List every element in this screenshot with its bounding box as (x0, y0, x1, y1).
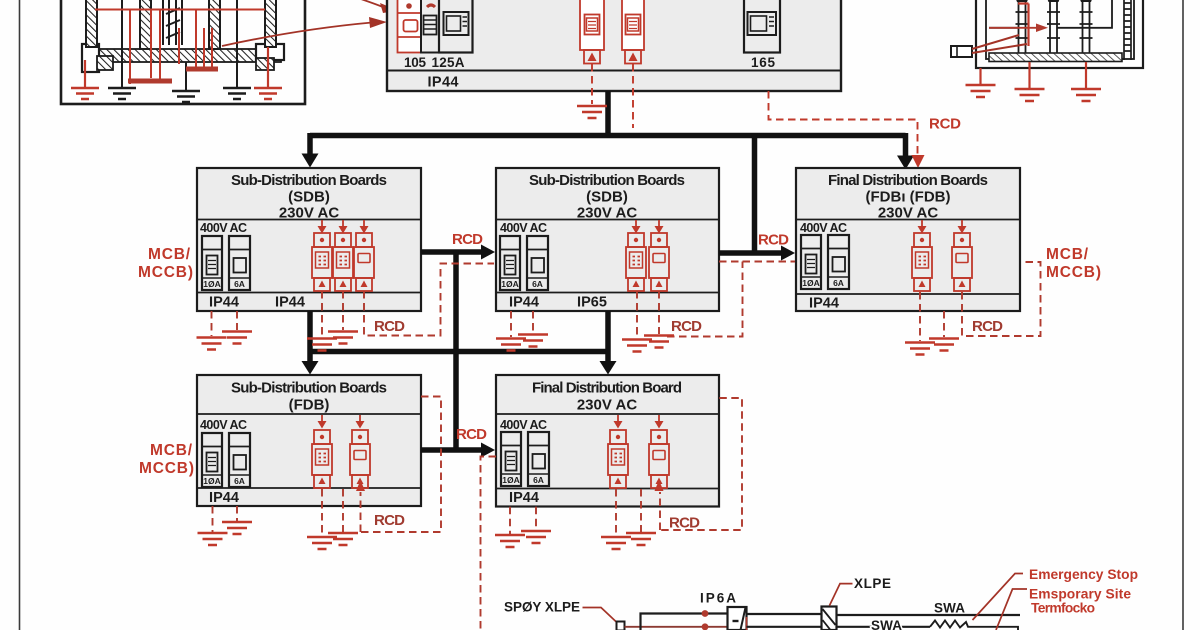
earth dashed FDB2 mcb1 (509, 507, 511, 534)
ground G1 (black) (108, 88, 136, 99)
svg-text:400V AC: 400V AC (800, 221, 847, 235)
svg-text:IP44: IP44 (428, 75, 459, 91)
arrow up into FDB2 rcbo2 (655, 480, 664, 491)
outgoing RCBO R4 (626, 233, 646, 291)
outgoing RCBO R2 (333, 233, 353, 291)
svg-text:RCD: RCD (456, 426, 487, 443)
board FDB1 (row1) (796, 168, 1020, 311)
cable gland box (left of T2) (951, 46, 972, 57)
svg-text:IP44: IP44 (509, 490, 539, 506)
earth dashed SDB3 mcb1 (212, 506, 214, 532)
leader arrow from T1 to main board (upper) (352, 0, 383, 7)
RCD dashed drop with ground (under MDB) (591, 64, 593, 104)
wire drop black 3 (236, 0, 238, 88)
svg-text:RCD: RCD (374, 318, 405, 335)
board FDB2 (row2) (496, 375, 719, 507)
wire: SDB1 drop through bus into SDB3 (307, 311, 313, 365)
MDB strip divider (387, 70, 841, 72)
svg-text:230V AC: 230V AC (279, 205, 339, 222)
earth dashed FDB2 rcbo1 (615, 489, 617, 536)
arrow up into SDB3 rcbo2 (356, 480, 365, 491)
earth dashed FDB2 mcb2 (535, 507, 537, 530)
earth drop T2 left (979, 68, 981, 84)
svg-text:Final Distribution Board: Final Distribution Board (532, 380, 682, 397)
ground G2 (black) (172, 91, 200, 102)
meter device D3 (439, 0, 473, 53)
insulator stack column (1124, 0, 1131, 60)
leader arrow from T1 to main board (lower) (222, 23, 372, 47)
svg-text:IP44: IP44 (275, 295, 305, 311)
svg-text:MCB/: MCB/ (1046, 246, 1089, 263)
leader: temporary site (996, 589, 1027, 630)
busbar (hatched) (989, 53, 1122, 62)
svg-text:SPØY XLPE: SPØY XLPE (504, 600, 580, 615)
wire: row2 bus (thick) (310, 349, 609, 355)
ground G8 (red) (1015, 89, 1045, 101)
MCB pair (SDB1) (202, 236, 250, 290)
svg-text:Sub-Distribution Boards: Sub-Distribution Boards (529, 172, 685, 189)
RCD dashed feeder to FDB (top) (769, 91, 918, 156)
post stack 1 (1016, 0, 1029, 53)
RCD loop SDB3 (361, 397, 442, 533)
column P4 (hatched) (265, 0, 276, 47)
MCB pair (FDB1) (801, 235, 849, 289)
svg-text:SWA: SWA (871, 618, 902, 630)
red collector bar B (186, 67, 218, 72)
earth dashed SDB2 mcb2 (532, 311, 534, 333)
isolator switch box (728, 607, 747, 630)
outgoing RCBO R1 (312, 233, 332, 291)
svg-text:RCD: RCD (374, 512, 405, 529)
svg-text:RCD: RCD (929, 116, 961, 133)
svg-text:RCD: RCD (972, 318, 1003, 335)
wire drop black 2 (185, 62, 187, 91)
incomer device D1 (red) (398, 0, 422, 53)
wire: bus drop junction to RCD link (752, 133, 758, 253)
outgoing RCBO R5 (649, 233, 669, 291)
earth dashed FDB1 mcb2 (943, 311, 945, 337)
gland (hatched box) (822, 607, 837, 630)
column P1 (hatched) (86, 0, 97, 47)
svg-text:230V AC: 230V AC (577, 205, 637, 222)
earth dashed SDB3 rcbo2 (342, 489, 344, 532)
ground G6 (red) (577, 106, 607, 118)
red wire drop left (84, 60, 86, 88)
meter device D2 (421, 0, 439, 53)
wire: bus drop to FDB boards (903, 133, 909, 159)
wire: lower core with armour joint (837, 626, 931, 628)
svg-text:400V AC: 400V AC (500, 418, 547, 432)
armour zigzag (930, 621, 1018, 630)
svg-text:(FDBı (FDB): (FDBı (FDB) (866, 189, 951, 206)
leader to plug (583, 608, 619, 624)
svg-text:IP65: IP65 (577, 295, 607, 311)
svg-text:RCD: RCD (671, 318, 702, 335)
ground G5 (red) (254, 88, 282, 99)
svg-text:SWA: SWA (934, 601, 965, 616)
wire: main bus (horizontal) (310, 133, 906, 139)
MCB pair (SDB3) (202, 433, 250, 487)
svg-text:MCB/: MCB/ (150, 442, 193, 459)
red riser wire (1018, 4, 1029, 47)
beam (hatched horizontal member) (95, 49, 281, 62)
wire: lower core (red-brown) (625, 626, 728, 628)
svg-text:(FDB): (FDB) (289, 397, 330, 414)
wire: upper core corner (641, 614, 728, 630)
svg-text:XLPE: XLPE (854, 576, 891, 591)
wire drop black 1 (121, 0, 123, 88)
outgoing RCBO R3 (354, 233, 374, 291)
wire: lower core after switch (747, 626, 822, 628)
wire: link SDB2 to FDB1 (thick) (719, 250, 784, 256)
earth dashed SDB2 rcbo2 (658, 291, 660, 334)
transformer sketch T1 (top-left enclosure) (61, 0, 305, 104)
outgoing breaker B2 (red) (622, 0, 644, 64)
svg-text:RCD: RCD (758, 232, 789, 249)
outgoing RCBO R8 (312, 430, 332, 488)
svg-text:IP44: IP44 (209, 295, 239, 311)
outgoing RCBO R6 (912, 233, 932, 291)
svg-text:MCCB): MCCB) (139, 460, 194, 477)
earth dashed SDB3 rcbo1 (321, 489, 323, 536)
RCD loop SDB1 to SDB2 (364, 264, 494, 336)
grounds row1 (red) (197, 338, 227, 350)
outgoing RCBO R11 (649, 430, 669, 488)
svg-text:125A: 125A (432, 55, 465, 70)
earth dashed SDB1 mcb2 (236, 311, 238, 330)
ground G7 (red) (966, 85, 996, 97)
ground G3 (black) (223, 88, 251, 99)
svg-text:IP44: IP44 (209, 490, 239, 506)
svg-text:230V AC: 230V AC (577, 397, 637, 414)
svg-text:RCD: RCD (452, 231, 483, 248)
svg-text:Emsporary Site: Emsporary Site (1029, 587, 1131, 602)
svg-text:(SDB): (SDB) (288, 189, 330, 206)
ground G9 (red) (1071, 89, 1101, 101)
svg-text:Sub-Distribution Boards: Sub-Distribution Boards (231, 172, 387, 189)
svg-text:400V AC: 400V AC (500, 221, 547, 235)
svg-text:MCCB): MCCB) (1046, 264, 1101, 281)
wire: upper core after switch (747, 613, 822, 615)
wire: bus drop to SDB1 (307, 133, 313, 157)
feed arrows into RCBOs (318, 220, 327, 234)
svg-text:400V AC: 400V AC (200, 221, 247, 235)
red collector bar A (128, 79, 172, 84)
outgoing RCBO R7 (952, 233, 972, 291)
junction dot upper (702, 610, 709, 617)
post caps (1014, 0, 1030, 2)
earth dashed SDB2 mcb1 (510, 311, 512, 337)
switchgear sketch T2 (top-right enclosure) (976, 0, 1143, 68)
RCD dashed stub under MDB (632, 64, 634, 128)
earth dashed SDB1 rcbo2 (342, 291, 344, 330)
RCD dashed feed to bottom cable (481, 457, 497, 630)
svg-text:165: 165 (751, 55, 775, 70)
border frame left (19, 0, 21, 630)
MCB pair (SDB2) (500, 236, 548, 290)
post stack 2 (1047, 0, 1060, 53)
wire: link SDB3 to FDB2 (thick) (421, 447, 484, 453)
border frame right (1182, 0, 1184, 630)
earth dashed FDB1 mcb1 (919, 292, 921, 341)
meter device D4 (744, 0, 780, 53)
red wire drop right (267, 47, 269, 88)
earth dashed SDB2 rcbo1 (636, 291, 638, 338)
grounds row2 (red) (198, 533, 228, 545)
svg-text:IP44: IP44 (809, 296, 839, 312)
earth dashed SDB1 mcb1 (211, 311, 213, 336)
wire: MDB feeder drop to bus (605, 91, 611, 136)
svg-text:400V AC: 400V AC (200, 418, 247, 432)
junction dot lower (702, 623, 709, 630)
column P3 (hatched) (209, 0, 220, 49)
earth dashed SDB3 mcb2 (236, 506, 238, 521)
earth drop T2 right (1085, 62, 1087, 88)
interconnect wire (black) (989, 0, 1112, 28)
svg-text:MCB/: MCB/ (148, 246, 191, 263)
main distribution board MDB (387, 0, 841, 91)
red feeder bus inside T1 (95, 10, 265, 85)
board SDB1 (row1) (197, 168, 421, 311)
svg-text:Sub-Distribution Boards: Sub-Distribution Boards (231, 380, 387, 397)
svg-text:(SDB): (SDB) (586, 189, 628, 206)
outgoing breaker B1 (red) (580, 0, 604, 64)
red cable pair into T2 (972, 35, 1027, 53)
post stack 3 (1080, 0, 1093, 53)
wire: SDB2 drop through bus into FDB2 (605, 311, 611, 365)
MCB pair (FDB2) (501, 432, 549, 486)
svg-text:105: 105 (404, 55, 426, 70)
ground G4 (red) (71, 88, 99, 99)
leader: emergency stop (973, 574, 1024, 621)
board SDB3 (row2) (197, 375, 421, 506)
svg-text:RCD: RCD (669, 515, 700, 532)
svg-text:Termfocko: Termfocko (1031, 601, 1095, 616)
earth dashed FDB2 rcbo2 (640, 489, 642, 532)
svg-text:230V AC: 230V AC (878, 205, 938, 222)
svg-text:Emergency Stop: Emergency Stop (1029, 567, 1138, 582)
svg-text:IP44: IP44 (509, 295, 539, 311)
outgoing RCBO R9 (350, 430, 370, 488)
earth drop T2 mid (1028, 62, 1030, 88)
RCD loop SDB2 to FDB1 (667, 262, 795, 337)
outgoing RCBO R10 (608, 430, 628, 488)
plug connector (617, 622, 625, 630)
svg-text:MCCB): MCCB) (138, 264, 193, 281)
svg-text:IP6A: IP6A (700, 591, 736, 606)
RCD loop FDB1 (962, 262, 1041, 336)
wire: upper core to end (837, 614, 1021, 616)
column P2 (hatched) (140, 0, 151, 49)
wire: link SDB1 to SDB2 (thick) (421, 249, 484, 255)
earth dashed SDB1 rcbo1 (321, 291, 323, 337)
svg-text:Final Distribution Boards: Final Distribution Boards (828, 172, 988, 189)
RCD loop FDB2 (660, 398, 742, 530)
board SDB2 (row1) (496, 168, 719, 311)
wire: riser from link1 down to row2 (thick) (453, 250, 459, 451)
red control wire with arrow (989, 27, 1038, 29)
center posts (163, 0, 182, 45)
